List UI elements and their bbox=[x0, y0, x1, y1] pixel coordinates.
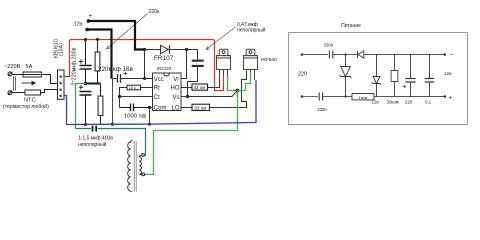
wire to bootstrap cap bbox=[187, 50, 198, 60]
plus mark C4 bbox=[124, 72, 128, 76]
core lines bbox=[133, 141, 135, 192]
capacitor 0,1 bbox=[425, 55, 435, 97]
current direction arrow bbox=[22, 81, 36, 84]
svg-text:1-1,5 мкф 400в: 1-1,5 мкф 400в bbox=[78, 136, 113, 142]
svg-text:15 к: 15 к bbox=[129, 86, 136, 90]
wire HO to Q1 gate bbox=[208, 70, 220, 88]
wire aux top bbox=[302, 54, 328, 56]
terminal aux top bbox=[301, 53, 304, 56]
wire LO bbox=[181, 107, 192, 109]
svg-text:30ком: 30ком bbox=[387, 100, 399, 105]
node Com bbox=[148, 106, 151, 109]
node aux + bbox=[444, 95, 447, 98]
wire X2 to NTC bbox=[12, 92, 25, 94]
12в feed + (thick) bbox=[87, 19, 91, 23]
zener VD2 bbox=[340, 55, 352, 97]
transistor Q1 IRF840 bbox=[217, 49, 231, 76]
svg-text:330н: 330н bbox=[324, 43, 334, 48]
svg-text:−: − bbox=[450, 52, 454, 59]
svg-text:Питание: Питание bbox=[341, 23, 361, 29]
resistor 1ком bbox=[352, 94, 374, 100]
wire Com stub bbox=[150, 107, 153, 109]
svg-text:(термистор любой): (термистор любой) bbox=[3, 103, 49, 110]
wire aux bottom bbox=[302, 96, 318, 98]
resistor R3 15к bbox=[127, 85, 141, 90]
node Vcc bbox=[143, 77, 146, 80]
svg-text:1ком: 1ком bbox=[359, 95, 368, 100]
thermistor NTC bbox=[25, 90, 41, 95]
svg-text:неполярный: неполярный bbox=[237, 27, 266, 34]
svg-text:(10А): (10А) bbox=[59, 43, 65, 56]
green wire midpoint to primary bottom bbox=[145, 91, 238, 175]
primary winding bbox=[139, 155, 142, 174]
svg-text:Com: Com bbox=[154, 106, 167, 112]
wire R to + terminal bbox=[374, 96, 445, 98]
wire VB vertical bbox=[181, 50, 187, 79]
svg-text:FR107: FR107 bbox=[154, 55, 174, 62]
svg-text:220к: 220к bbox=[149, 9, 161, 15]
svg-text:12в: 12в bbox=[372, 100, 380, 105]
wire diode to - terminal bbox=[364, 54, 445, 56]
teal wire cap to transformer primary top bbox=[98, 129, 146, 156]
capacitor 330н (top) bbox=[329, 51, 332, 59]
plus mark C1 bbox=[79, 59, 83, 63]
svg-text:NTC: NTC bbox=[24, 98, 36, 104]
capacitor C3 1-1,5мкф 400в bbox=[93, 126, 97, 132]
svg-text:неполярный: неполярный bbox=[78, 141, 107, 148]
wire +310V red rail (bridge + up, along top, down to Q1 drain) bbox=[64, 40, 224, 91]
wire cap to R 1ком bbox=[323, 96, 352, 98]
green wire midpoint to Q2 drain bbox=[238, 72, 251, 91]
wire HO bbox=[181, 87, 192, 89]
terminal X2 bbox=[8, 91, 12, 95]
capacitor C6 1000пФ bbox=[120, 104, 150, 112]
svg-text:Vcc: Vcc bbox=[154, 77, 164, 83]
wire Vcc vertical bbox=[144, 50, 146, 79]
svg-text:5А: 5А bbox=[26, 64, 33, 70]
svg-text:IRF840: IRF840 bbox=[261, 57, 277, 63]
transistor Q2 IRF840 bbox=[244, 49, 258, 80]
svg-text:Vг: Vг bbox=[173, 77, 180, 83]
svg-text:33 ом: 33 ом bbox=[194, 85, 206, 90]
svg-text:12в: 12в bbox=[74, 22, 83, 28]
capacitor 220 (electrolytic) bbox=[405, 55, 415, 97]
wire LO to Q2 gate bbox=[210, 70, 247, 108]
terminal X1 bbox=[8, 72, 12, 76]
capacitor C2 (2*220мкф 200в lower) bbox=[80, 92, 92, 125]
svg-text:LO: LO bbox=[171, 106, 179, 112]
wire 12в- to COM rail bbox=[112, 79, 114, 125]
node aux - bbox=[444, 53, 447, 56]
svg-text:HO: HO bbox=[171, 86, 180, 92]
cord lines bbox=[13, 77, 15, 91]
node Vs / C5 bbox=[186, 95, 189, 98]
annotation line to C5 bbox=[206, 27, 236, 50]
wire NTC to bridge pin ~2 bbox=[41, 90, 58, 93]
node red rail / C1 bbox=[84, 38, 87, 41]
plus mark 220 cap bbox=[403, 85, 406, 88]
capacitor C4 220мкф 16в (Vcc) bbox=[112, 74, 153, 83]
wire cap to diode bbox=[333, 54, 357, 56]
svg-text:33 ом: 33 ом bbox=[195, 106, 207, 111]
fuse F1 5А bbox=[23, 72, 42, 77]
node Ct bbox=[118, 95, 121, 98]
resistor R1 220к bbox=[95, 40, 100, 84]
zener VD3 12в bbox=[372, 55, 381, 97]
svg-text:220: 220 bbox=[298, 72, 307, 78]
green wire caps midpoint down bbox=[76, 84, 86, 129]
svg-text:220мкф 16в: 220мкф 16в bbox=[98, 66, 134, 73]
diode VD1 bbox=[358, 51, 364, 58]
IC body bbox=[153, 73, 182, 111]
terminal aux bottom bbox=[301, 95, 304, 98]
wire Ct node down bbox=[119, 97, 121, 108]
svg-text:~220В: ~220В bbox=[4, 64, 21, 70]
diode FR107 bbox=[145, 45, 187, 53]
svg-text:12в: 12в bbox=[444, 71, 452, 76]
wire Ct bbox=[120, 96, 153, 98]
svg-text:IR2153: IR2153 bbox=[157, 66, 172, 71]
resistor R2 220к bbox=[98, 84, 103, 125]
secondary winding bbox=[128, 140, 133, 192]
green wire Q1 source to midpoint bbox=[228, 76, 238, 91]
12в feed - (thick) bbox=[85, 28, 89, 32]
svg-text:1000 пф: 1000 пф bbox=[124, 114, 147, 120]
wire Vs to midpoint bbox=[181, 91, 238, 97]
svg-text:+: + bbox=[449, 95, 453, 102]
capacitor C1 (2*220мкф 200в upper) bbox=[80, 40, 92, 84]
wire Rt bbox=[141, 87, 153, 89]
node zener1 bottom bbox=[344, 95, 346, 97]
bridge rectifier KBU610 bbox=[58, 70, 65, 99]
capacitor 330н (bottom) bbox=[319, 93, 322, 101]
node red rail / R1 bbox=[96, 38, 99, 41]
svg-text:Rt: Rt bbox=[154, 86, 160, 92]
node Com rail bbox=[148, 123, 151, 126]
blue wire -310V rail bbox=[64, 80, 256, 125]
wire caps midpoint (thick) bbox=[86, 83, 101, 85]
svg-text:+: + bbox=[89, 13, 93, 20]
svg-text:220: 220 bbox=[405, 100, 413, 105]
annotation line to R1 bbox=[107, 14, 148, 50]
terminal primary bottom bbox=[142, 173, 145, 176]
wire R3 to Ct node bbox=[120, 88, 128, 97]
wire fuse to bridge pin ~1 bbox=[42, 75, 58, 84]
node Vcc feed bbox=[143, 48, 146, 51]
node C2 to -rail bbox=[84, 123, 87, 126]
wire X1 to fuse bbox=[12, 74, 23, 76]
wire C5 bottom to Vs bbox=[188, 67, 198, 97]
resistor 30ком bbox=[391, 55, 398, 97]
capacitor C5 0,47мкф (bootstrap) bbox=[192, 60, 204, 67]
svg-text:0,1: 0,1 bbox=[425, 100, 432, 105]
svg-text:330н: 330н bbox=[317, 107, 327, 112]
node midpoint bbox=[236, 89, 240, 93]
plus mark C2 bbox=[79, 85, 83, 89]
box bbox=[289, 33, 468, 125]
svg-text:2*220мкф 200в: 2*220мкф 200в bbox=[72, 47, 78, 85]
node 12в- rail bbox=[111, 123, 114, 126]
node VB feed bbox=[185, 48, 188, 51]
teal wire to DC-block cap bbox=[76, 128, 92, 130]
resistor R5 33 ом bbox=[192, 104, 210, 110]
node zener1 top bbox=[344, 53, 346, 55]
resistor R4 33 ом bbox=[192, 84, 208, 90]
svg-text:Vs: Vs bbox=[172, 95, 179, 101]
wire Com to -rail bbox=[149, 108, 151, 125]
svg-text:Ct: Ct bbox=[154, 95, 160, 101]
node caps midpoint bbox=[84, 82, 87, 85]
terminal primary top bbox=[142, 154, 145, 157]
